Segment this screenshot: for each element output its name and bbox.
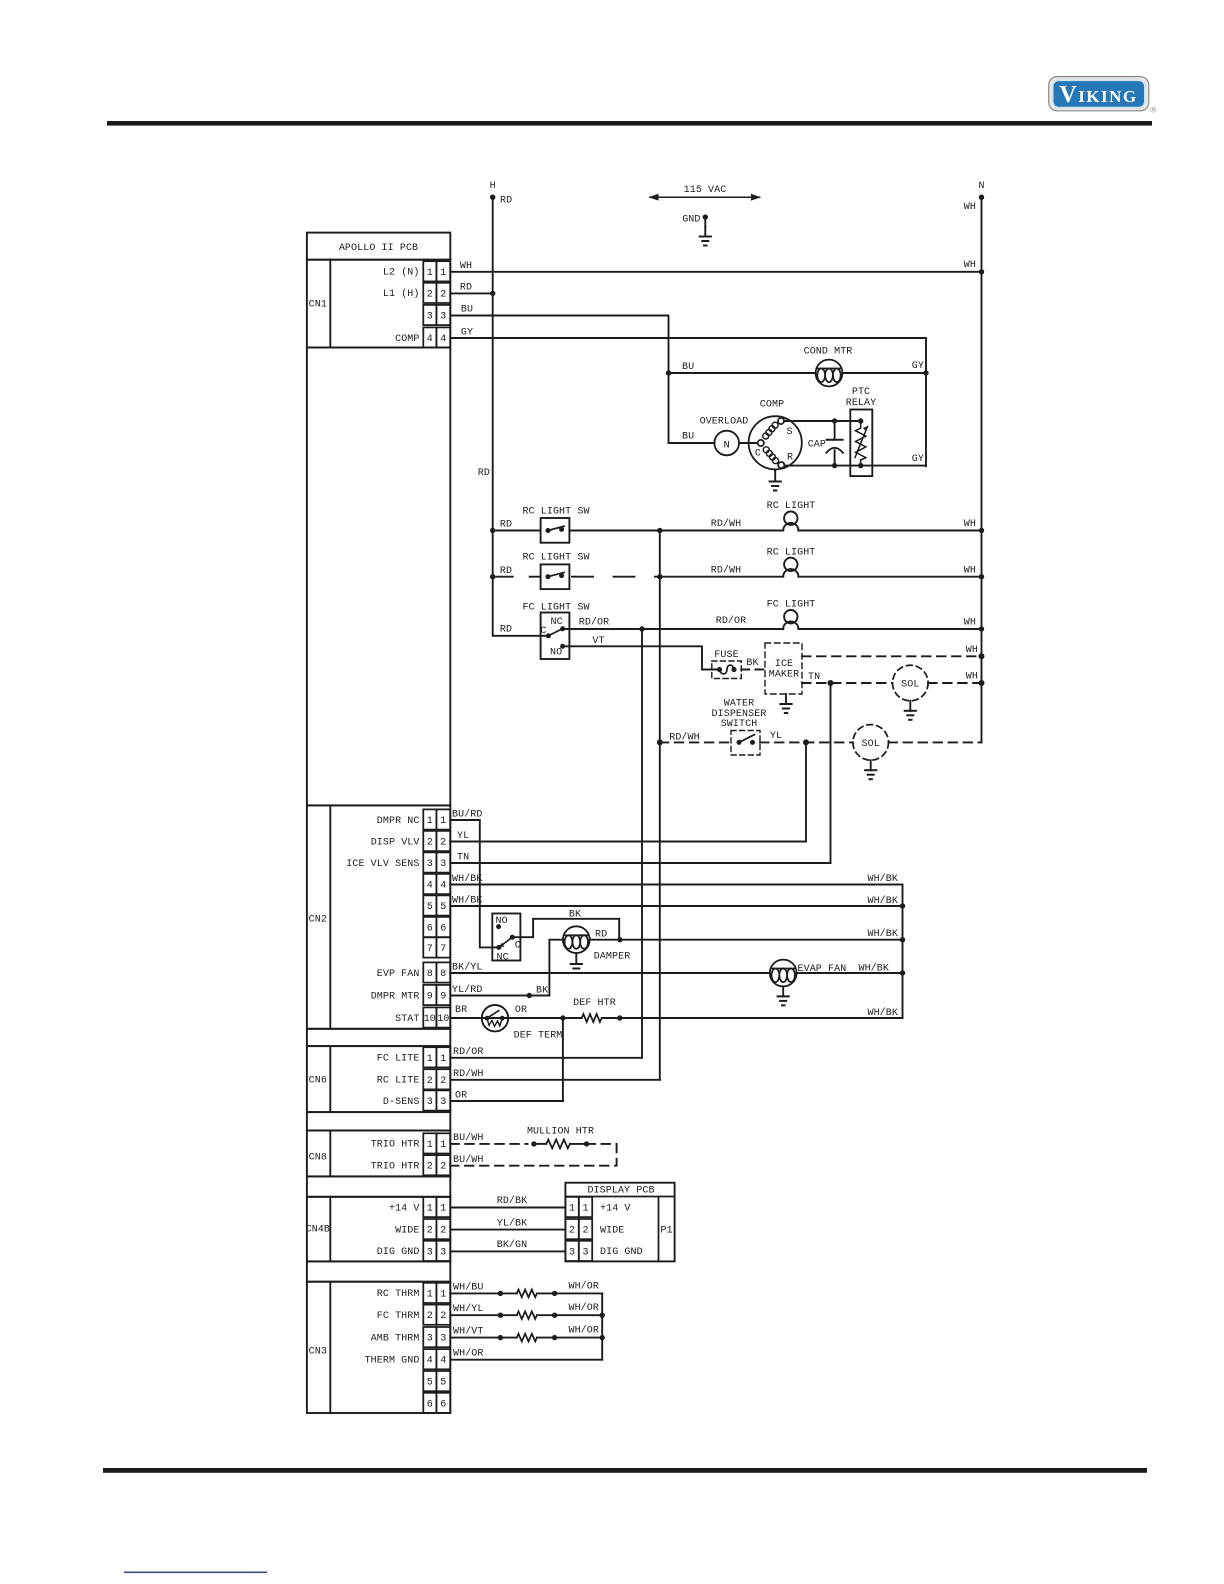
wire WH/VT CN3 pin3 thermistor row	[450, 1337, 517, 1339]
svg-text:4: 4	[440, 1356, 446, 1367]
svg-text:NC: NC	[497, 953, 509, 964]
svg-text:1: 1	[427, 816, 433, 827]
wire overload to compressor C	[739, 442, 758, 444]
svg-text:1: 1	[427, 1204, 433, 1215]
CN1 pin 3	[423, 305, 450, 325]
node junction ice WH at N bus	[979, 653, 985, 659]
node junction L2/N	[979, 269, 984, 274]
CN1 pin 1 L2 (N)	[423, 261, 450, 281]
svg-text:P1: P1	[660, 1226, 672, 1237]
svg-text:RD/OR: RD/OR	[716, 615, 747, 627]
wire OR vertical to CN6 pin3	[562, 1018, 564, 1101]
svg-text:5: 5	[427, 1378, 433, 1389]
node damper RD junction	[617, 937, 622, 942]
wire BU branch to cond motor	[669, 372, 816, 374]
svg-text:COND MTR: COND MTR	[804, 347, 853, 358]
svg-text:WH/OR: WH/OR	[568, 1302, 599, 1314]
svg-text:D-SENS: D-SENS	[383, 1097, 420, 1108]
svg-text:115 VAC: 115 VAC	[684, 185, 727, 196]
wire GY cond motor to GY bus	[842, 372, 926, 374]
damper motor	[563, 926, 590, 953]
svg-text:RD: RD	[500, 625, 512, 636]
svg-text:WH: WH	[964, 519, 976, 530]
svg-text:3: 3	[427, 1334, 433, 1345]
defrost terminator DEF TERM	[482, 1005, 508, 1031]
svg-text:4: 4	[440, 881, 446, 892]
connector CN2 block	[307, 805, 450, 1028]
svg-text:2: 2	[440, 289, 446, 300]
svg-text:SWITCH: SWITCH	[721, 719, 758, 730]
svg-text:WH: WH	[460, 261, 472, 272]
svg-text:COMP: COMP	[760, 399, 784, 410]
CN8 pin 2 TRIO HTR	[423, 1155, 450, 1175]
node GY junction at cond motor	[923, 370, 928, 375]
svg-text:WIDE: WIDE	[395, 1225, 419, 1236]
svg-text:2: 2	[427, 1311, 433, 1322]
svg-text:DMPR MTR: DMPR MTR	[371, 991, 420, 1002]
FC thermistor	[517, 1311, 537, 1319]
svg-text:RC LIGHT SW: RC LIGHT SW	[522, 506, 589, 517]
svg-text:CN3: CN3	[309, 1346, 327, 1357]
svg-text:WH/YL: WH/YL	[453, 1303, 484, 1315]
svg-text:6: 6	[427, 924, 433, 935]
svg-text:RD/WH: RD/WH	[453, 1068, 484, 1080]
svg-text:RD/BK: RD/BK	[497, 1195, 528, 1207]
svg-text:PTC: PTC	[852, 387, 870, 398]
svg-text:2: 2	[440, 1076, 446, 1087]
svg-text:6: 6	[440, 924, 446, 935]
node junction YL to CN2	[803, 739, 809, 745]
wire BK/GN CN4B pin3 to display	[450, 1250, 565, 1252]
wire WH/YL CN3 pin2 thermistor row	[450, 1314, 517, 1316]
svg-text:YL: YL	[457, 831, 469, 842]
ground below compressor	[774, 469, 776, 471]
svg-text:®: ®	[1151, 106, 1157, 115]
svg-text:YL/RD: YL/RD	[452, 984, 483, 996]
svg-text:WH: WH	[966, 645, 978, 656]
display PCB box	[565, 1183, 674, 1262]
svg-text:3: 3	[427, 1247, 433, 1258]
svg-text:CN8: CN8	[309, 1153, 327, 1164]
node junction row2 at N bus	[979, 574, 984, 579]
wire def htr to WH/BK bus	[602, 1017, 903, 1019]
svg-text:9: 9	[440, 992, 446, 1003]
svg-text:9: 9	[427, 992, 433, 1003]
wire RC light row1 left segment	[493, 530, 541, 532]
svg-text:1: 1	[440, 1289, 446, 1300]
wire FC row right segment WH	[798, 628, 981, 630]
svg-text:1: 1	[427, 1054, 433, 1065]
svg-text:FC LIGHT SW: FC LIGHT SW	[522, 602, 589, 613]
svg-text:C: C	[755, 449, 761, 460]
svg-text:1: 1	[440, 816, 446, 827]
svg-text:GY: GY	[912, 454, 924, 465]
svg-text:1: 1	[440, 268, 446, 279]
svg-text:DIG GND: DIG GND	[600, 1247, 643, 1258]
svg-text:RC LITE: RC LITE	[377, 1076, 420, 1087]
top horizontal rule	[107, 121, 1152, 126]
svg-text:4: 4	[440, 334, 446, 345]
svg-text:MAKER: MAKER	[769, 670, 800, 681]
wire BK from damper switch C to damper junction	[512, 919, 619, 940]
svg-text:N: N	[723, 440, 729, 452]
wire RD vertical from H down to FC light switch	[493, 197, 549, 636]
svg-text:3: 3	[427, 859, 433, 870]
node cap top junction	[832, 418, 837, 423]
CN6 pin 1 FC LITE	[423, 1047, 450, 1067]
svg-text:3: 3	[427, 1097, 433, 1108]
svg-text:ICE: ICE	[775, 659, 793, 670]
wire YL from CN2 pin2	[450, 841, 806, 843]
svg-text:MULLION HTR: MULLION HTR	[527, 1126, 594, 1137]
svg-text:1: 1	[427, 1140, 433, 1151]
svg-text:RD: RD	[595, 930, 607, 941]
svg-text:5: 5	[440, 1378, 446, 1389]
PCB outer box band	[307, 1112, 450, 1130]
ice solenoid SOL	[893, 665, 929, 701]
svg-text:6: 6	[440, 1399, 446, 1410]
display connector P1 pin 3	[565, 1241, 592, 1261]
CN1 pin 4 COMP	[423, 327, 450, 347]
wire YL vertical to CN2 pin2	[805, 742, 807, 841]
svg-text:DISP VLV: DISP VLV	[371, 837, 420, 848]
svg-text:RC LIGHT SW: RC LIGHT SW	[522, 553, 589, 564]
svg-text:BK: BK	[536, 985, 548, 996]
wire YL dashed from switch to dispenser solenoid	[760, 741, 853, 743]
CN3 pin 1 RC THRM	[423, 1283, 450, 1303]
node BK junction on pin9 wire	[527, 993, 532, 998]
svg-text:+14 V: +14 V	[600, 1203, 631, 1214]
FC light lamp	[783, 610, 798, 629]
svg-text:10: 10	[424, 1014, 436, 1025]
bottom-left blue underline	[124, 1572, 267, 1574]
svg-text:3: 3	[440, 1097, 446, 1108]
CN2 pin 3 ICE VLV SENS	[423, 852, 450, 872]
svg-text:3: 3	[440, 1247, 446, 1258]
svg-text:RD: RD	[500, 566, 512, 577]
node junction FC row at N bus	[979, 626, 984, 631]
svg-text:RD/WH: RD/WH	[669, 732, 700, 744]
svg-text:WH: WH	[964, 565, 976, 576]
wire WH/BK from CN2 pin5 to bus	[450, 905, 902, 907]
ground symbol below GND	[704, 217, 706, 226]
svg-text:1: 1	[569, 1204, 575, 1215]
CN3 pin 5	[423, 1371, 450, 1391]
svg-text:C: C	[540, 626, 546, 637]
svg-text:OR: OR	[455, 1090, 467, 1101]
svg-text:RD: RD	[460, 283, 472, 294]
connector CN8 block	[307, 1131, 450, 1177]
connector CN4B block	[307, 1197, 450, 1262]
svg-text:BR: BR	[455, 1005, 467, 1016]
svg-text:7: 7	[440, 944, 446, 955]
wire BU from CN1 pin3 down to compressor branch	[450, 316, 714, 444]
svg-text:5: 5	[440, 902, 446, 913]
node cap bottom junction	[832, 463, 837, 468]
svg-text:2: 2	[569, 1226, 575, 1237]
svg-text:R: R	[787, 453, 793, 464]
wire RC light row2 left dashed segment	[493, 576, 541, 578]
CN4B pin 3 DIG GND	[423, 1241, 450, 1261]
CN3 pin 3 AMB THRM	[423, 1327, 450, 1347]
svg-text:DMPR NC: DMPR NC	[377, 816, 420, 827]
svg-text:4: 4	[427, 1356, 433, 1367]
RC thermistor	[517, 1290, 537, 1298]
RC light switch 2	[541, 564, 570, 589]
svg-text:1: 1	[440, 1204, 446, 1215]
svg-text:COMP: COMP	[395, 334, 419, 345]
Viking logo	[1049, 77, 1157, 115]
svg-text:BU/WH: BU/WH	[453, 1154, 484, 1166]
ground below dispenser solenoid	[865, 760, 876, 779]
node BU junction at cond motor branch	[666, 370, 671, 375]
wire R to PTC bottom and GY	[784, 465, 926, 467]
svg-text:8: 8	[440, 969, 446, 980]
wire RC light row1 right segment WH	[798, 530, 981, 532]
ground below evap fan	[778, 986, 789, 1005]
wire BK/YL from CN2 pin8 to evap fan	[450, 972, 770, 974]
CN6 pin 3 D-SENS	[423, 1090, 450, 1110]
svg-text:BK/YL: BK/YL	[452, 962, 483, 974]
svg-text:N: N	[978, 181, 984, 192]
svg-text:RC THRM: RC THRM	[377, 1289, 420, 1300]
PCB outer box band	[307, 1261, 450, 1281]
svg-text:AMB THRM: AMB THRM	[371, 1333, 420, 1344]
svg-text:BK: BK	[746, 658, 758, 669]
svg-text:1: 1	[427, 268, 433, 279]
wire TN ice maker to solenoid dashed	[802, 682, 893, 684]
RC light switch 1	[541, 518, 570, 543]
svg-text:BU: BU	[682, 362, 694, 373]
node junction water dispenser row at RD/WH bus	[657, 739, 663, 745]
evap fan motor	[770, 960, 797, 987]
svg-text:TRIO HTR: TRIO HTR	[371, 1140, 420, 1151]
svg-text:WH/BK: WH/BK	[858, 962, 889, 974]
svg-text:2: 2	[427, 1226, 433, 1237]
svg-text:DEF TERM: DEF TERM	[514, 1030, 563, 1041]
wire VT from FC switch NO to fuse	[563, 646, 717, 669]
CN3 pin 2 FC THRM	[423, 1305, 450, 1325]
node junction sol WH at N bus	[979, 680, 985, 686]
svg-text:RD: RD	[500, 520, 512, 531]
svg-text:DIG GND: DIG GND	[377, 1247, 420, 1258]
connector CN1 block	[307, 260, 450, 348]
svg-text:RC LIGHT: RC LIGHT	[767, 501, 816, 512]
node RD junction row2	[490, 574, 495, 579]
node def htr right terminal	[617, 1015, 622, 1020]
svg-text:RELAY: RELAY	[846, 398, 877, 409]
CN8 pin 1 TRIO HTR	[423, 1133, 450, 1153]
svg-text:WH: WH	[966, 672, 978, 683]
svg-text:8: 8	[427, 969, 433, 980]
svg-text:H: H	[490, 181, 496, 192]
wire RC light row2 dashed mid segment RD/WH	[572, 576, 660, 578]
bottom horizontal rule	[103, 1468, 1147, 1473]
RC light lamp 2	[783, 558, 798, 577]
svg-text:10: 10	[437, 1014, 449, 1025]
svg-text:BU: BU	[461, 305, 473, 316]
svg-text:RD/WH: RD/WH	[711, 564, 742, 576]
wire RD/WH vertical bus	[659, 531, 661, 1080]
svg-text:RD/WH: RD/WH	[711, 518, 742, 530]
svg-text:WH/VT: WH/VT	[453, 1326, 484, 1338]
CN3 pin 6	[423, 1393, 450, 1413]
wire RD/OR from CN6 pin1	[450, 1057, 642, 1059]
node junction FC row RD/OR	[639, 626, 644, 631]
svg-text:RD: RD	[478, 468, 490, 479]
svg-text:RD/OR: RD/OR	[453, 1046, 484, 1058]
svg-text:7: 7	[427, 944, 433, 955]
wire WH/BK from CN2 pin4 to bus	[450, 885, 902, 1019]
CN2 pin 2 DISP VLV	[423, 831, 450, 851]
wire RC light row1 mid segment RD/WH	[569, 530, 783, 532]
damper switch	[492, 914, 520, 961]
svg-text:3: 3	[440, 312, 446, 323]
svg-text:VT: VT	[592, 636, 604, 647]
wire BU/WH dashed from CN8 pin1 to mullion heater	[450, 1143, 527, 1145]
svg-text:2: 2	[427, 1162, 433, 1173]
node PTC bottom pin	[858, 463, 863, 468]
wire FC row RD/OR from NC to N bus	[563, 628, 784, 630]
CN2 pin 4	[423, 874, 450, 894]
svg-text:GY: GY	[461, 327, 473, 338]
svg-text:2: 2	[582, 1226, 588, 1237]
overload protector N	[714, 431, 739, 456]
CN4B pin 1 +14 V	[423, 1197, 450, 1217]
svg-text:C: C	[515, 941, 521, 952]
CN2 pin 10 STAT	[423, 1007, 450, 1027]
node junction row1 at N bus	[979, 528, 984, 533]
svg-text:2: 2	[440, 1311, 446, 1322]
svg-text:3: 3	[569, 1247, 575, 1258]
svg-text:4: 4	[427, 334, 433, 345]
wire RD/BK CN4B pin1 to display	[450, 1207, 565, 1209]
compressor terminal C	[758, 440, 764, 446]
node junction damper row at WH/BK bus	[900, 937, 905, 942]
svg-text:TN: TN	[457, 853, 469, 864]
svg-text:WH/BK: WH/BK	[867, 1007, 898, 1019]
compressor terminal R	[778, 462, 784, 468]
PCB outer box band	[307, 1029, 450, 1046]
svg-text:2: 2	[440, 1226, 446, 1237]
svg-text:3: 3	[582, 1247, 588, 1258]
svg-text:1: 1	[582, 1204, 588, 1215]
svg-text:WH: WH	[964, 260, 976, 271]
svg-text:+14 V: +14 V	[389, 1203, 420, 1214]
svg-text:3: 3	[440, 1334, 446, 1345]
node RD junction row1	[490, 528, 495, 533]
svg-text:4: 4	[427, 881, 433, 892]
wire L1(H) RD from CN1 pin2 to H line	[450, 292, 492, 294]
svg-text:SOL: SOL	[901, 680, 919, 691]
PCB outer box empty band	[307, 348, 450, 806]
CN2 pin 9 DMPR MTR	[423, 985, 450, 1005]
wire RD from damper motor to WH/BK bus	[590, 939, 903, 941]
CN2 pin 5	[423, 895, 450, 915]
svg-text:2: 2	[427, 838, 433, 849]
svg-text:1: 1	[440, 1054, 446, 1065]
svg-text:WH: WH	[964, 202, 976, 213]
CN3 pin 4 THERM GND	[423, 1349, 450, 1369]
svg-text:5: 5	[427, 902, 433, 913]
svg-text:SOL: SOL	[862, 739, 880, 750]
svg-text:WH/BK: WH/BK	[867, 895, 898, 907]
svg-text:1: 1	[440, 1140, 446, 1151]
svg-text:FUSE: FUSE	[714, 650, 738, 661]
compressor run winding coil	[763, 447, 778, 464]
node junction OR to CN6 D-SENS	[560, 1015, 565, 1020]
svg-text:FC THRM: FC THRM	[377, 1311, 420, 1322]
display connector P1 pin 2	[565, 1219, 592, 1239]
wire WH/OR vertical bus	[601, 1293, 603, 1359]
svg-text:WH: WH	[964, 618, 976, 629]
svg-text:RD: RD	[500, 196, 512, 207]
svg-text:CN1: CN1	[309, 300, 327, 311]
PCB outer box band	[307, 1176, 450, 1196]
wire RD/WH dashed to water dispenser switch	[660, 741, 731, 743]
ground below ice maker	[780, 694, 791, 713]
node junction row1 RD/WH bus	[657, 528, 662, 533]
svg-text:BU/RD: BU/RD	[452, 809, 483, 821]
svg-text:FC LIGHT: FC LIGHT	[767, 600, 816, 611]
svg-text:STAT: STAT	[395, 1014, 419, 1025]
wire WH/BU CN3 pin1 thermistor row	[450, 1292, 517, 1294]
115 VAC dimension arrow	[650, 196, 760, 198]
svg-text:GY: GY	[912, 361, 924, 372]
svg-text:OVERLOAD: OVERLOAD	[700, 417, 749, 428]
svg-text:1: 1	[427, 1289, 433, 1300]
svg-text:DAMPER: DAMPER	[594, 951, 631, 962]
compressor COMP	[749, 416, 802, 469]
wire from CN2 pin9 up to damper motor	[450, 940, 563, 996]
svg-text:2: 2	[427, 1076, 433, 1087]
svg-text:WIDE: WIDE	[600, 1225, 624, 1236]
connector CN3 block	[307, 1282, 450, 1413]
compressor terminal S	[778, 418, 784, 424]
node junction row2 RD/WH bus	[657, 574, 662, 579]
svg-text:S: S	[787, 427, 793, 438]
svg-text:WH/BK: WH/BK	[452, 895, 483, 907]
wire dashed dispenser solenoid to N bus corner	[889, 741, 982, 743]
svg-text:BU/WH: BU/WH	[453, 1132, 484, 1144]
svg-text:WH/BK: WH/BK	[867, 928, 898, 940]
svg-text:2: 2	[440, 838, 446, 849]
wire S to PTC relay top	[784, 420, 861, 422]
svg-text:3: 3	[427, 312, 433, 323]
node junction TN	[828, 680, 834, 686]
node junction pin5 at WH/BK bus	[900, 903, 905, 908]
wire BR from CN2 pin10 to def term	[450, 1017, 581, 1019]
ground below damper motor	[575, 952, 577, 955]
dispenser solenoid SOL	[853, 725, 889, 761]
CN2 pin 8 EVP FAN	[423, 962, 450, 982]
RC light lamp 1	[783, 512, 798, 531]
CN2 pin 7	[423, 937, 450, 957]
svg-text:WH/BK: WH/BK	[452, 873, 483, 885]
svg-text:YL: YL	[770, 731, 782, 742]
svg-text:CN2: CN2	[309, 915, 327, 926]
svg-text:BK/GN: BK/GN	[497, 1239, 528, 1251]
wire BK fuse to ice maker	[741, 669, 765, 671]
wire evap fan to WH/BK bus	[797, 972, 903, 974]
svg-text:WH/OR: WH/OR	[568, 1280, 599, 1292]
PTC thermistor element	[855, 421, 868, 466]
svg-text:GND: GND	[682, 215, 700, 226]
wire YL/BK CN4B pin2 to display	[450, 1229, 565, 1231]
cond motor M1	[816, 360, 843, 387]
CN4B pin 2 WIDE	[423, 1219, 450, 1239]
svg-text:WH/OR: WH/OR	[453, 1348, 484, 1360]
